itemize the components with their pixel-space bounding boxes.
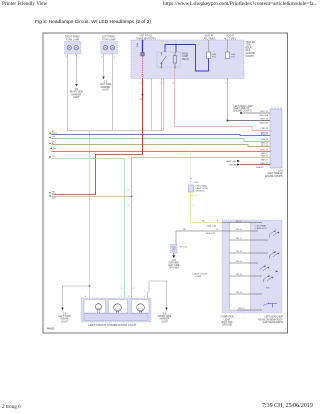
svg-text:RD 16: RD 16 — [236, 292, 243, 294]
svg-text:SIGNAL: SIGNAL — [60, 318, 69, 321]
wire: olive bus — [52, 145, 271, 147]
lamp L1 box — [65, 42, 82, 55]
module U1 box (engine compartment relay box) — [131, 40, 244, 79]
svg-text:1: 1 — [78, 57, 80, 59]
label under L2 arrow — [100, 82, 112, 92]
svg-text:C (BUILT-IN JB): C (BUILT-IN JB) — [192, 274, 208, 276]
U2 row 9 wire — [237, 309, 262, 311]
svg-text:LAMP: LAMP — [182, 55, 189, 58]
svg-text:RIGHT SIDE: RIGHT SIDE — [70, 92, 83, 94]
svg-text:RELAY: RELAY — [182, 58, 190, 61]
svg-text:TN: TN — [52, 194, 55, 196]
U2 LED D4 — [264, 276, 274, 283]
svg-text:S20: S20 — [140, 99, 145, 101]
wire: L1 right pin to marker arrow — [76, 54, 78, 85]
U2 row 7 wire — [229, 293, 262, 295]
svg-text:2: 2 — [101, 57, 103, 59]
label left marker — [58, 314, 71, 324]
svg-text:SENSOR: SENSOR — [196, 190, 205, 192]
wire: splice to connector row — [228, 120, 271, 122]
svg-text:SBB-12B: SBB-12B — [206, 233, 215, 235]
svg-text:LIGHT: LIGHT — [161, 321, 168, 323]
arrow under L2 — [102, 77, 104, 80]
wire: relay coil return pink — [175, 67, 271, 131]
header right url — [163, 1, 317, 7]
wire: gray drop to combination light — [89, 131, 91, 299]
header left — [2, 1, 47, 7]
label HOT AT ALL TIMES (left feed) — [136, 35, 156, 41]
svg-text:C: C — [128, 205, 130, 207]
svg-text:RELAY: RELAY — [230, 163, 237, 166]
wire label bullet lt green — [49, 156, 50, 157]
svg-text:WHT 32: WHT 32 — [260, 111, 269, 113]
svg-text:30A: 30A — [231, 53, 235, 56]
footer right timestamp — [262, 403, 313, 409]
splice S2 — [240, 112, 242, 114]
svg-text:C 148: C 148 — [193, 182, 199, 184]
svg-text:SBB-05B: SBB-05B — [259, 122, 268, 124]
svg-text:LIGHT: LIGHT — [224, 319, 231, 321]
ground label — [168, 260, 180, 270]
svg-text:C: C — [193, 205, 195, 207]
svg-text:HOT AT: HOT AT — [226, 35, 235, 38]
connector C4-A top ticks — [272, 107, 281, 110]
arrow under L1 — [75, 84, 77, 87]
module pin numbers below box — [140, 83, 228, 85]
bullet red bus — [51, 148, 52, 149]
svg-text:239: 239 — [52, 198, 56, 200]
svg-text:GRN 26: GRN 26 — [260, 139, 269, 141]
svg-text:RD 11: RD 11 — [236, 238, 243, 240]
U2 LED D3 — [260, 266, 270, 271]
svg-text:HEAD: HEAD — [182, 53, 189, 56]
U2 arrow mark — [276, 270, 279, 272]
svg-text:M4930: M4930 — [47, 328, 55, 331]
svg-text:BLU 27: BLU 27 — [261, 134, 269, 136]
svg-text:MARKER: MARKER — [101, 86, 111, 89]
red branch label — [52, 191, 56, 195]
tick above C148 — [190, 178, 192, 180]
connector tick C on tan drop — [134, 288, 136, 290]
svg-text:LIGHT: LIGHT — [102, 90, 109, 92]
svg-text:WH 10: WH 10 — [238, 308, 245, 310]
arrow refs left of red row — [237, 160, 240, 166]
svg-text:RD 14: RD 14 — [236, 274, 243, 276]
svg-text:C: C — [145, 291, 147, 293]
svg-text:RD 12: RD 12 — [236, 251, 243, 253]
svg-text:3: 3 — [144, 296, 146, 298]
svg-text:S/S: S/S — [104, 82, 108, 84]
U2 LED D2 — [270, 252, 280, 259]
svg-text:(LEFT SIDE OF: (LEFT SIDE OF — [267, 173, 283, 175]
combination light pin numbers — [85, 296, 146, 298]
bulb B2 — [114, 304, 122, 312]
svg-text:SBB-05A: SBB-05A — [259, 114, 268, 117]
wire: red dashed inside module — [142, 56, 144, 78]
wire: blue relay feed bus — [165, 45, 209, 72]
connector C4-A row labels — [259, 111, 269, 165]
U2 LED D1 — [270, 231, 280, 238]
svg-text:S/S: S/S — [74, 89, 78, 91]
splice S1 — [227, 120, 229, 122]
wire: fuse F2 feed — [227, 40, 229, 52]
U2 caption left block — [221, 317, 234, 327]
note label C (built-in JB) — [192, 274, 208, 279]
wire label bullet olive — [49, 143, 50, 144]
svg-text:SBB-07: SBB-07 — [261, 159, 269, 161]
svg-text:LG: LG — [52, 156, 55, 158]
lamp L2 box — [101, 42, 118, 55]
lamp L2 pin numbers — [101, 57, 115, 59]
svg-text:C: C — [128, 190, 130, 192]
svg-text:WHT 31: WHT 31 — [260, 119, 269, 121]
red bus label — [53, 148, 57, 150]
wire: ground return from headlamp — [176, 231, 222, 245]
svg-text:MARKER: MARKER — [71, 93, 81, 96]
wire: red bus full width — [52, 151, 271, 153]
wire: fuse F2 output to connector — [227, 79, 229, 121]
headlamp ref label — [234, 105, 254, 113]
chamber 2 — [109, 300, 128, 314]
diagram frame — [43, 33, 288, 333]
svg-text:OF DASH: OF DASH — [169, 267, 179, 270]
wire label bullet blue — [49, 133, 50, 134]
wire: park lamp gray bus — [68, 130, 164, 132]
svg-text:RELAY: RELAY — [246, 46, 254, 49]
svg-text:ENGINE COMPT): ENGINE COMPT) — [265, 176, 283, 178]
relay K1 contact — [161, 52, 167, 67]
wire: tan lower branch — [52, 196, 132, 198]
svg-text:RD 13: RD 13 — [236, 261, 243, 263]
ground arrow — [173, 253, 175, 256]
svg-text:HIGH/LOW BEAM ASSY: HIGH/LOW BEAM ASSY — [258, 318, 283, 321]
svg-text:5: 5 — [225, 83, 227, 85]
lamp L2 label (LEFT PARK/TURN LAMP) — [102, 36, 116, 42]
svg-text:ENGINE COMPT): ENGINE COMPT) — [234, 111, 252, 113]
svg-text:RED 22: RED 22 — [261, 149, 269, 151]
svg-text:HOT AT ALL: HOT AT ALL — [140, 35, 154, 38]
lt green label — [52, 156, 55, 158]
svg-text:TAN 21: TAN 21 — [261, 155, 269, 158]
svg-text:RD: RD — [202, 221, 206, 223]
U2 module label — [256, 225, 267, 231]
svg-text:SBB-12A: SBB-12A — [207, 224, 216, 227]
wire label bullet green — [49, 137, 50, 138]
tan branch label — [52, 194, 56, 199]
wire: relay output gray A — [151, 79, 153, 131]
svg-text:MARKER: MARKER — [160, 318, 170, 321]
svg-text:TOW: TOW — [246, 45, 252, 47]
U2 row 1 wire — [222, 222, 262, 224]
headlamp assembly U2 box — [222, 220, 282, 313]
label HOT AT ALL TIMES (fuse F1 feed) — [204, 35, 216, 41]
svg-text:LAMP ECU: LAMP ECU — [256, 227, 267, 230]
svg-text:LAMP OFF: LAMP OFF — [226, 160, 237, 163]
svg-text:Y: Y — [195, 195, 197, 197]
svg-text:GROUND: GROUND — [222, 325, 232, 327]
svg-text:BATT AND: BATT AND — [222, 321, 233, 324]
wire: relay output gray B — [160, 79, 162, 131]
chamber 3 — [132, 300, 150, 314]
svg-text:TURN LAMP: TURN LAMP — [66, 38, 80, 41]
svg-text:PNK 29: PNK 29 — [261, 128, 269, 130]
connector C4-A box — [270, 109, 282, 168]
blue bus label — [52, 131, 58, 135]
U2 blue shunt row — [263, 303, 268, 305]
inline connector C2 on yellow — [188, 185, 193, 192]
svg-text:RIGHT PARK/: RIGHT PARK/ — [65, 36, 80, 39]
wire: blue bus — [52, 135, 271, 136]
svg-text:RD 15: RD 15 — [236, 229, 243, 231]
svg-text:1: 1 — [121, 296, 123, 298]
wire: fuse F1 feed — [208, 40, 210, 52]
combination light inner bar — [84, 314, 148, 321]
chamber 1 — [84, 300, 106, 314]
wire: left marker branch — [63, 286, 90, 308]
svg-text:SBB-09: SBB-09 — [256, 167, 264, 169]
ground connector G1 box — [171, 245, 178, 254]
relay K1 box — [157, 52, 181, 67]
svg-text:LEFT FRONT COMBINATION LIGHT: LEFT FRONT COMBINATION LIGHT — [88, 323, 136, 327]
svg-text:LEFT PARK/: LEFT PARK/ — [102, 36, 115, 39]
U2 caption — [258, 316, 283, 324]
U2 inner pin strip — [230, 222, 251, 310]
wire: relay output gray C — [163, 79, 165, 131]
arrow left marker — [61, 308, 63, 311]
wire: red feed from module — [142, 79, 144, 155]
olive bus label — [52, 141, 56, 145]
svg-text:COMPUTER: COMPUTER — [221, 317, 234, 319]
svg-text:C: C — [121, 288, 123, 290]
U2 row 3 wire — [229, 239, 268, 241]
wire: light green park feed — [52, 158, 125, 298]
bullet tan branch — [49, 195, 50, 196]
svg-text:LIGHT: LIGHT — [61, 321, 68, 323]
relay K1 coil — [174, 52, 176, 67]
wire: yellow headlamp feed lower — [191, 192, 223, 223]
bulb B3 — [137, 304, 145, 312]
svg-text:TRAILER: TRAILER — [246, 41, 256, 44]
combination light box — [81, 298, 151, 322]
splice S3 on red — [142, 94, 144, 96]
fuse F1 — [207, 52, 211, 59]
green bus label — [52, 136, 56, 138]
svg-text:(ENGINE: (ENGINE — [246, 53, 256, 55]
svg-text:30A: 30A — [136, 43, 139, 47]
junction on blue bus — [175, 44, 177, 46]
svg-text:(LED HEADLAMPS): (LED HEADLAMPS) — [263, 321, 284, 324]
svg-text:C4-A: C4-A — [278, 170, 284, 173]
connector tick C on green drop — [121, 190, 130, 290]
svg-text:C: C — [134, 288, 136, 290]
wire: L2 left pin to marker arrow — [103, 54, 105, 77]
connector C2 label — [196, 185, 210, 193]
svg-text:GN: GN — [52, 136, 56, 138]
U2 row 5 wire — [229, 262, 258, 264]
svg-text:LEFT HEADLAMP: LEFT HEADLAMP — [265, 316, 284, 319]
svg-text:CONN: CONN — [195, 276, 202, 278]
yellow wire labels — [202, 221, 219, 223]
U2 row 4 wire — [229, 252, 268, 254]
svg-text:GD 104: GD 104 — [180, 247, 188, 249]
wire: tan headlamp bus — [132, 157, 271, 298]
title — [35, 20, 151, 25]
svg-text:OLV 24: OLV 24 — [261, 145, 269, 147]
svg-text:LED HEAD: LED HEAD — [256, 225, 267, 228]
svg-text:HOT AT: HOT AT — [205, 35, 214, 38]
wire: row to connector pin 32 — [241, 112, 270, 114]
yellow wire color tag — [190, 194, 194, 196]
U2 row 6 wire — [229, 275, 262, 277]
stub into combination light — [148, 292, 150, 298]
svg-text:COMPT): COMPT) — [246, 56, 255, 58]
wire: red branch left — [55, 155, 143, 195]
junction tan — [131, 196, 133, 198]
bulb B1 — [95, 304, 101, 310]
wire: stub to coil — [175, 45, 177, 53]
label under L1 arrow — [70, 89, 83, 99]
wire: right marker branch — [149, 281, 167, 308]
connector C4-A caption — [265, 170, 284, 178]
lamp L1 pin numbers — [65, 57, 79, 59]
svg-text:RD: RD — [53, 148, 57, 150]
U2 row 2 wire — [222, 230, 258, 232]
wire: green bus — [52, 138, 271, 141]
wire: L1 left pin down to park bus — [67, 54, 69, 131]
svg-text:LIGHT: LIGHT — [73, 97, 80, 99]
wire: yellow headlamp feed upper — [190, 152, 192, 186]
svg-text:TURN LAMP: TURN LAMP — [102, 38, 116, 41]
wire: L2 right pin down to park bus — [112, 54, 114, 131]
svg-text:2: 2 — [128, 296, 130, 298]
svg-text:BOX: BOX — [246, 50, 251, 52]
relay pin circles — [161, 67, 162, 68]
svg-text:2: 2 — [65, 57, 67, 59]
label HOT AT ALL TIMES (fuse F2 feed) — [224, 35, 236, 41]
svg-text:RD 8: RD 8 — [236, 221, 242, 223]
module U1 side label — [246, 41, 256, 58]
relay K1 label — [182, 53, 190, 61]
wire: battery feed blue into module — [142, 40, 144, 53]
lamp L1 label (RIGHT PARK/TURN LAMP) — [65, 36, 80, 42]
fuse F2 — [226, 52, 230, 59]
footer left page count — [2, 404, 21, 410]
wire: red arrow row — [240, 164, 270, 166]
bullet red branch — [49, 192, 50, 193]
svg-text:RD: RD — [183, 229, 187, 231]
svg-text:40A: 40A — [212, 53, 216, 56]
arrow right marker — [165, 308, 167, 311]
svg-text:LEFT SIDE: LEFT SIDE — [100, 84, 112, 86]
svg-text:1: 1 — [114, 57, 116, 59]
label right marker — [158, 314, 172, 324]
splice on gray drop — [89, 285, 91, 287]
connector square on feed — [141, 53, 144, 56]
